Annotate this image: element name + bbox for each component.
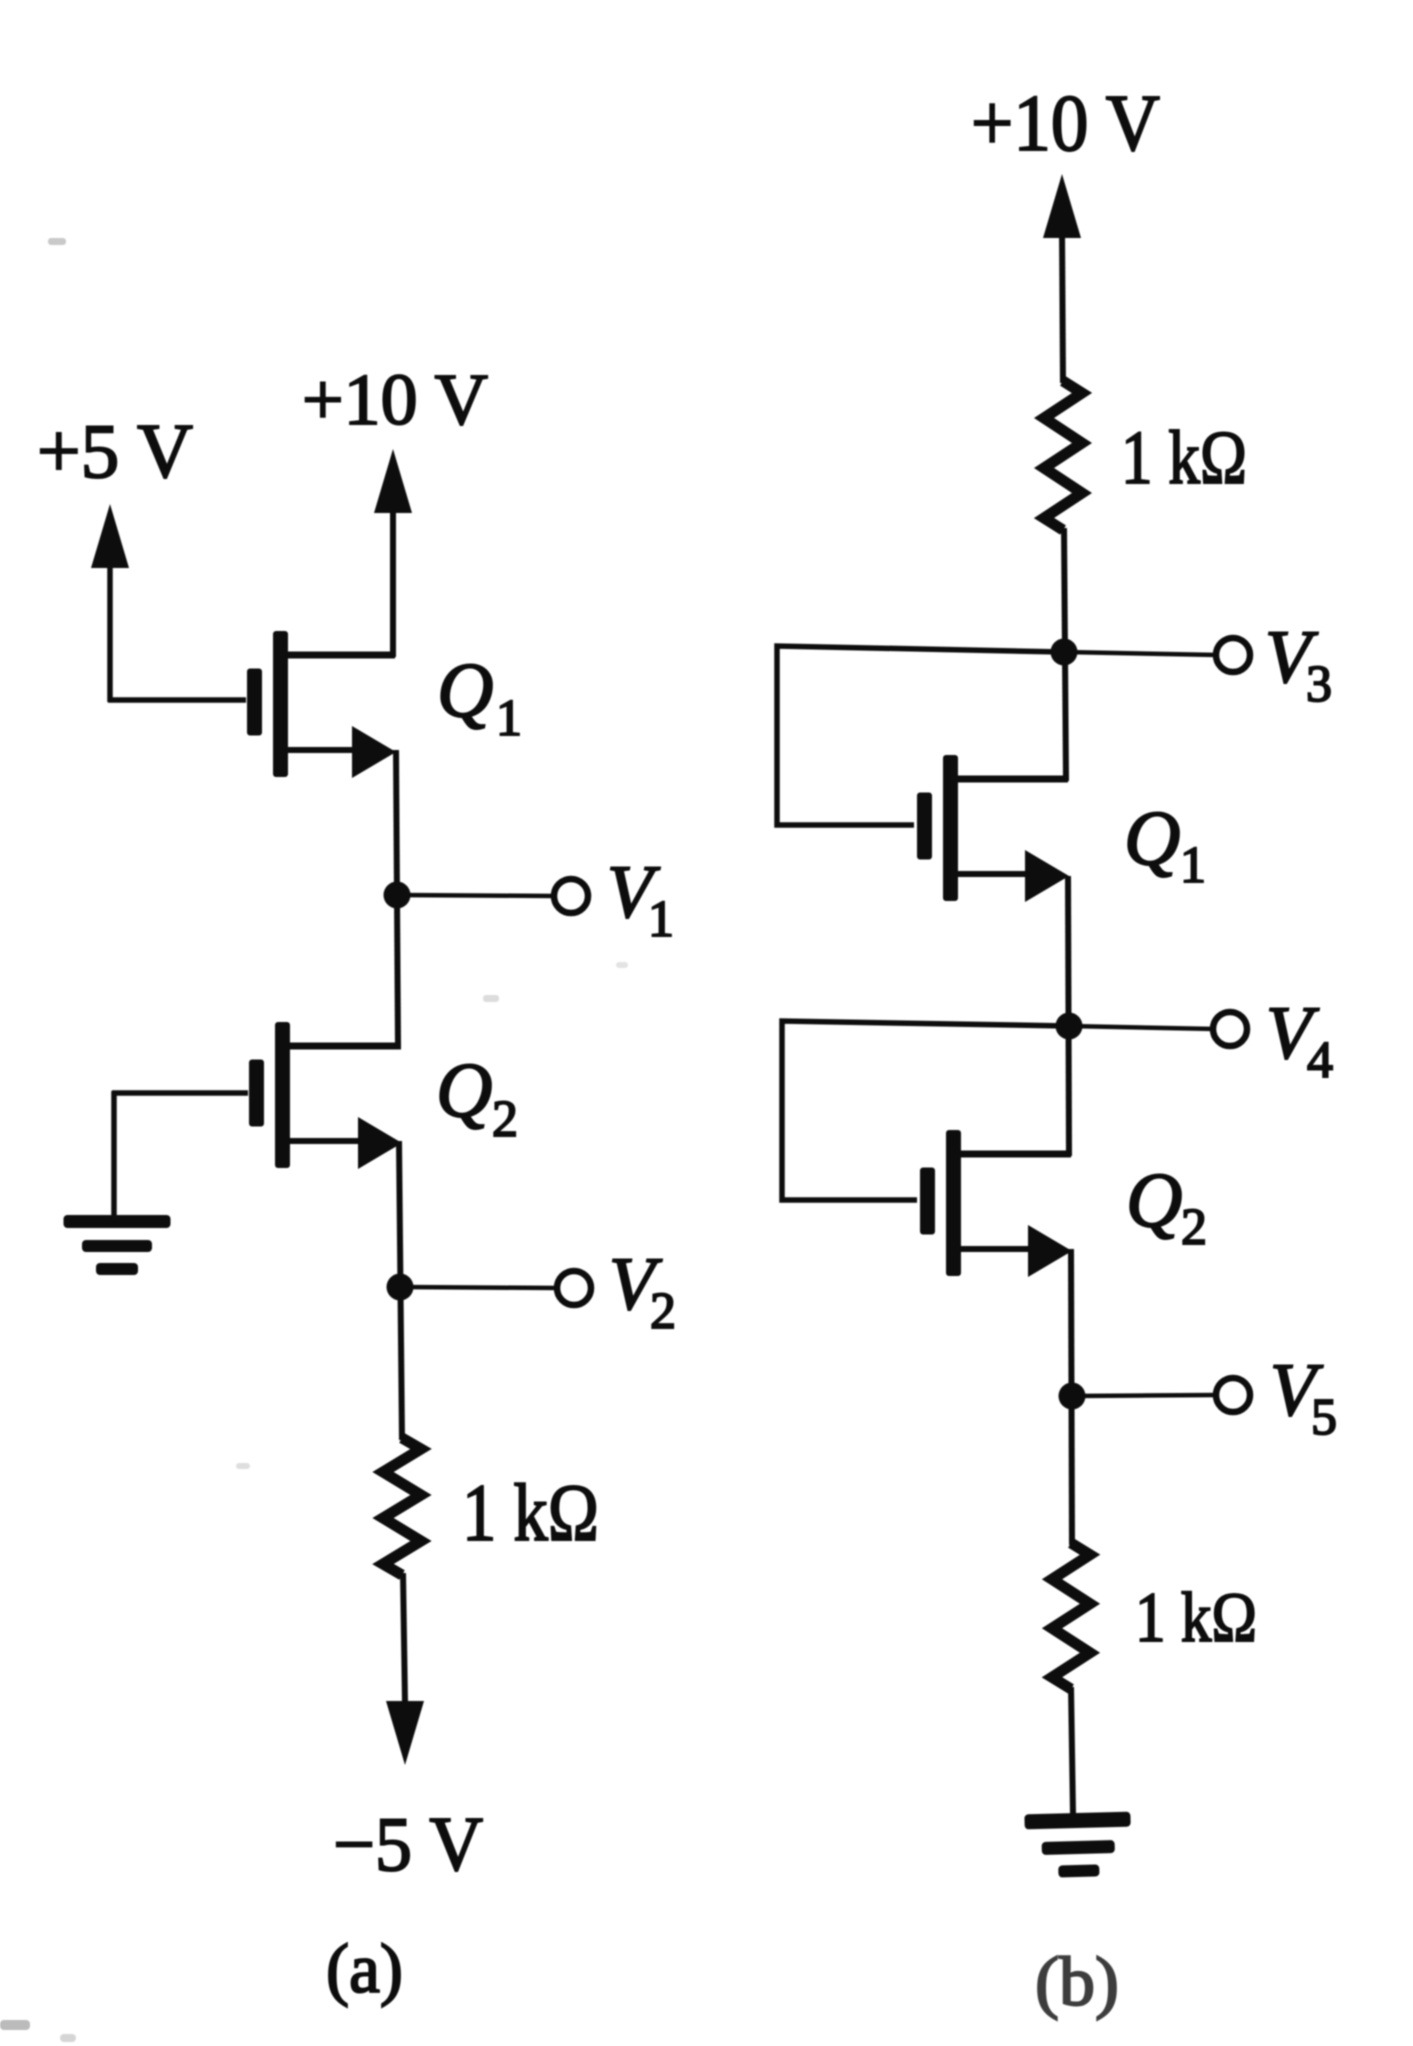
svg-text:2: 2 (1181, 1199, 1207, 1256)
svg-text:4: 4 (1307, 1032, 1333, 1089)
svg-text:Q: Q (1124, 794, 1180, 881)
svg-text:5: 5 (1311, 1389, 1337, 1446)
svg-text:+5 V: +5 V (37, 408, 193, 494)
svg-text:3: 3 (1306, 656, 1332, 713)
svg-text:1 kΩ: 1 kΩ (1121, 416, 1247, 500)
svg-text:Q: Q (437, 646, 493, 733)
svg-text:(b): (b) (1035, 1944, 1119, 2021)
svg-text:+10 V: +10 V (302, 359, 488, 440)
svg-text:1: 1 (1180, 837, 1206, 894)
svg-text:1: 1 (648, 891, 674, 948)
svg-text:2: 2 (650, 1283, 676, 1340)
svg-text:−5 V: −5 V (333, 1801, 483, 1887)
svg-text:Q: Q (436, 1046, 492, 1133)
svg-text:1: 1 (496, 690, 522, 747)
svg-text:+10 V: +10 V (971, 80, 1160, 168)
svg-text:1 kΩ: 1 kΩ (462, 1467, 599, 1558)
svg-text:(a): (a) (326, 1931, 403, 2008)
svg-text:Q: Q (1126, 1156, 1182, 1243)
svg-text:1 kΩ: 1 kΩ (1135, 1579, 1257, 1657)
svg-text:2: 2 (492, 1091, 518, 1148)
